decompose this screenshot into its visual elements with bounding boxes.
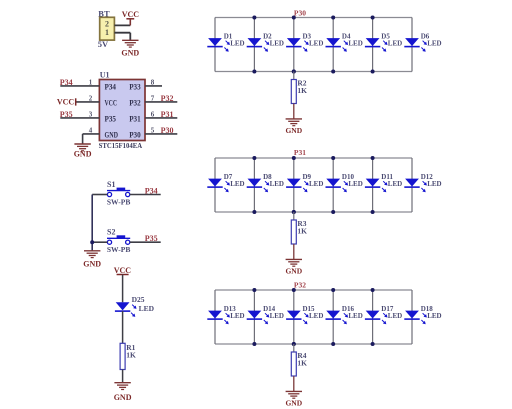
junction top rail at D9	[292, 156, 296, 160]
ground (U1 pin 4)	[74, 144, 92, 159]
svg-text:P35: P35	[105, 114, 117, 123]
wire branch D18	[411, 290, 413, 344]
svg-text:P34: P34	[145, 186, 158, 195]
junction bottom rail at R3	[292, 210, 296, 214]
junction bottom rail at D3	[292, 70, 296, 74]
svg-text:P32: P32	[161, 94, 174, 103]
svg-text:LED: LED	[309, 312, 323, 320]
svg-text:5: 5	[151, 127, 155, 135]
wire branch D9	[293, 158, 295, 212]
svg-text:P30: P30	[294, 8, 306, 17]
wire branch D2	[253, 18, 255, 72]
svg-text:5V: 5V	[98, 39, 109, 49]
junction bottom rail at D10	[331, 210, 335, 214]
wire R3 to GND	[293, 244, 295, 259]
junction top rail at D15	[292, 288, 296, 292]
junction top rail at D16	[331, 288, 335, 292]
LED D12	[404, 173, 441, 192]
wire branch D3	[293, 18, 295, 72]
LED D1	[207, 33, 244, 52]
wire branch D8	[253, 158, 255, 212]
ground (R2)	[285, 119, 302, 135]
svg-text:SW-PB: SW-PB	[107, 245, 130, 254]
junction bottom rail at D14	[252, 342, 256, 346]
svg-text:LED: LED	[427, 40, 441, 48]
svg-text:LED: LED	[309, 180, 323, 188]
junction bottom rail at D17	[371, 342, 375, 346]
resistor R1 1K	[120, 343, 125, 369]
svg-text:1K: 1K	[297, 359, 307, 368]
svg-text:P34: P34	[105, 82, 117, 91]
svg-text:LED: LED	[427, 312, 441, 320]
power VCC (U1 pin 2)	[57, 97, 76, 106]
junction bottom rail at D16	[331, 342, 335, 346]
svg-text:LED: LED	[270, 40, 284, 48]
wire U1 pin4 to GND	[83, 134, 100, 144]
svg-text:LED: LED	[230, 180, 244, 188]
wire branch D5	[372, 18, 374, 72]
LED D7	[207, 173, 244, 192]
wire U1 pin2	[76, 101, 100, 103]
wire U1 pin8	[145, 85, 162, 87]
svg-text:GND: GND	[83, 259, 101, 268]
svg-text:VCC: VCC	[122, 10, 140, 19]
svg-text:GND: GND	[74, 150, 92, 159]
ground (R1)	[114, 383, 132, 403]
svg-text:6: 6	[151, 111, 155, 119]
junction top rail at D8	[252, 156, 256, 160]
wire BT pin1 to GND	[114, 33, 130, 41]
wire switches common to GND	[91, 195, 93, 251]
junction top rail at D3	[292, 16, 296, 20]
LED D11	[365, 173, 402, 192]
wire P32 bottom rail	[215, 343, 412, 345]
junction top rail at D2	[252, 16, 256, 20]
svg-text:LED: LED	[230, 312, 244, 320]
LED D15	[286, 305, 323, 324]
wire U1 pin3	[60, 117, 99, 119]
wire branch D16	[332, 290, 334, 344]
junction bottom rail at R4	[292, 342, 296, 346]
LED D17	[365, 305, 402, 324]
svg-text:LED: LED	[348, 312, 362, 320]
svg-text:P32: P32	[294, 281, 306, 290]
wire branch D6	[411, 18, 413, 72]
wire P30 top rail	[215, 17, 412, 19]
wire R1 to GND	[122, 370, 124, 383]
wire S1 left	[92, 194, 107, 196]
wire branch D1	[214, 18, 216, 72]
junction bottom rail at D15	[292, 342, 296, 346]
svg-text:P35: P35	[60, 110, 73, 119]
junction top rail at D5	[371, 16, 375, 20]
power VCC (battery)	[122, 10, 140, 26]
wire P32 top rail	[215, 289, 412, 291]
svg-text:VCC: VCC	[57, 97, 75, 106]
wire U1 pin5	[145, 133, 177, 135]
svg-text:2: 2	[89, 95, 93, 103]
LED D5	[365, 33, 402, 52]
junction (S2/GND)	[90, 240, 94, 244]
wire branch D14	[253, 290, 255, 344]
LED D18	[404, 305, 441, 324]
wire P31 bottom rail	[215, 211, 412, 213]
svg-text:GND: GND	[105, 130, 119, 139]
LED D25	[115, 295, 155, 317]
wire D25 to R1	[122, 311, 124, 343]
svg-text:LED: LED	[230, 40, 244, 48]
LED D4	[326, 33, 363, 52]
ground (R4)	[285, 391, 302, 407]
svg-text:GND: GND	[285, 399, 302, 408]
LED D6	[404, 33, 441, 52]
svg-text:D25: D25	[132, 295, 145, 304]
svg-text:1K: 1K	[297, 227, 307, 236]
junction top rail at D10	[331, 156, 335, 160]
ground (R3)	[285, 259, 302, 275]
wire rail to R4	[293, 344, 295, 352]
wire branch D10	[332, 158, 334, 212]
svg-text:3: 3	[89, 111, 93, 119]
svg-text:P35: P35	[145, 234, 158, 243]
junction bottom rail at D9	[292, 210, 296, 214]
junction bottom rail at D4	[331, 70, 335, 74]
ground (switches)	[83, 251, 101, 269]
svg-text:P32: P32	[129, 98, 141, 107]
svg-text:SW-PB: SW-PB	[107, 197, 130, 206]
connector BT	[98, 9, 115, 49]
svg-text:P30: P30	[161, 126, 174, 135]
wire branch D4	[332, 18, 334, 72]
junction bottom rail at D11	[371, 210, 375, 214]
resistor R3 1K	[291, 219, 307, 244]
wire VCC to D25	[122, 275, 124, 303]
svg-text:P33: P33	[129, 82, 141, 91]
wire R2 to GND	[293, 104, 295, 119]
svg-text:8: 8	[151, 79, 155, 87]
svg-text:LED: LED	[270, 180, 284, 188]
svg-text:P34: P34	[60, 78, 73, 87]
resistor R2 1K	[291, 78, 307, 103]
junction top rail at D14	[252, 288, 256, 292]
svg-text:LED: LED	[309, 40, 323, 48]
LED D10	[326, 173, 363, 192]
svg-text:LED: LED	[348, 180, 362, 188]
svg-text:STC15F104EA: STC15F104EA	[99, 141, 143, 150]
wire P30 bottom rail	[215, 71, 412, 73]
svg-text:P31: P31	[129, 114, 141, 123]
svg-text:VCC: VCC	[114, 266, 132, 275]
junction bottom rail at D2	[252, 70, 256, 74]
svg-text:P31: P31	[161, 110, 174, 119]
junction top rail at D11	[371, 156, 375, 160]
wire S2 right to P35	[130, 241, 161, 243]
switch S2 SW-PB	[107, 228, 130, 254]
svg-text:P31: P31	[294, 148, 306, 157]
svg-text:LED: LED	[388, 40, 402, 48]
LED D9	[286, 173, 323, 192]
wire U1 pin7	[145, 101, 177, 103]
svg-text:LED: LED	[270, 312, 284, 320]
svg-text:U1: U1	[100, 71, 110, 80]
svg-text:LED: LED	[427, 180, 441, 188]
IC U1 STC15F104EA	[99, 71, 145, 151]
wire S2 left	[92, 241, 107, 243]
junction bottom rail at D5	[371, 70, 375, 74]
LED D14	[247, 305, 284, 324]
power VCC (D25 branch)	[114, 266, 132, 275]
wire rail to R2	[293, 72, 295, 80]
svg-text:S1: S1	[107, 180, 115, 189]
wire P31 top rail	[215, 157, 412, 159]
svg-text:P30: P30	[129, 130, 141, 139]
svg-text:4: 4	[89, 127, 93, 135]
svg-text:1: 1	[89, 79, 93, 87]
junction top rail at D17	[371, 288, 375, 292]
wire S1 right to P34	[130, 194, 161, 196]
svg-text:1: 1	[105, 28, 109, 37]
svg-text:7: 7	[151, 95, 155, 103]
switch S1 SW-PB	[107, 180, 130, 206]
svg-text:LED: LED	[388, 180, 402, 188]
wire branch D12	[411, 158, 413, 212]
ground (battery)	[121, 40, 139, 57]
svg-text:1K: 1K	[126, 350, 136, 359]
wire rail to R3	[293, 212, 295, 220]
svg-text:LED: LED	[348, 40, 362, 48]
LED D3	[286, 33, 323, 52]
wire branch D7	[214, 158, 216, 212]
wire branch D13	[214, 290, 216, 344]
svg-text:LED: LED	[388, 312, 402, 320]
svg-text:VCC: VCC	[105, 98, 118, 107]
wire R4 to GND	[293, 376, 295, 391]
junction bottom rail at R2	[292, 70, 296, 74]
wire branch D17	[372, 290, 374, 344]
LED D2	[247, 33, 284, 52]
resistor R4 1K	[291, 351, 307, 376]
wire branch D15	[293, 290, 295, 344]
svg-text:LED: LED	[139, 304, 155, 313]
svg-text:GND: GND	[114, 393, 132, 402]
svg-text:1K: 1K	[297, 86, 307, 95]
svg-text:GND: GND	[285, 267, 302, 276]
svg-text:GND: GND	[121, 48, 139, 57]
LED D16	[326, 305, 363, 324]
junction top rail at D4	[331, 16, 335, 20]
junction bottom rail at D8	[252, 210, 256, 214]
LED D13	[207, 305, 244, 324]
LED D8	[247, 173, 284, 192]
wire U1 pin6	[145, 117, 177, 119]
svg-text:GND: GND	[285, 126, 302, 135]
wire branch D11	[372, 158, 374, 212]
svg-text:S2: S2	[107, 228, 115, 237]
wire U1 pin1	[60, 85, 99, 87]
wire BT pin2 to VCC	[114, 24, 130, 26]
